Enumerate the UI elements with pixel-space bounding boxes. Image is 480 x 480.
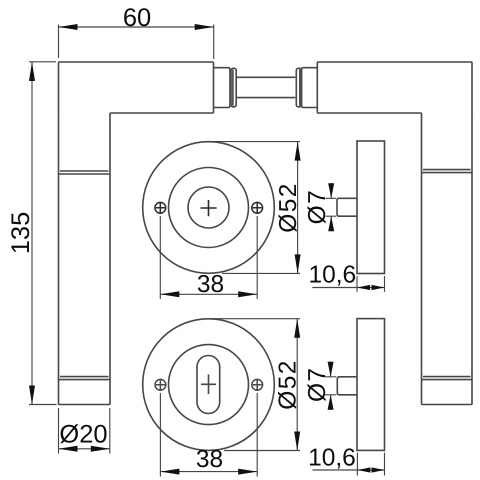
arrow 10,6 upper right (372, 285, 385, 290)
label Ø7 lower (304, 367, 331, 402)
arrow 38 lower left (160, 469, 179, 475)
right handle neck (302, 68, 318, 108)
svg-text:38: 38 (196, 446, 223, 473)
arrow Ø52 lower bottom (294, 432, 300, 451)
upper side view spindle stub (337, 198, 357, 216)
lower rosette outer circle (143, 319, 275, 451)
lower side view spindle stub (337, 377, 357, 395)
arrow 10,6 upper left (357, 285, 370, 290)
upper rosette outer circle (143, 142, 275, 274)
arrow 10,6 lower right (372, 467, 385, 472)
arrow Ø7 lower top (328, 362, 334, 377)
dim 38 lower: extension lines (160, 393, 257, 477)
left lever handle body (plan view) (59, 62, 214, 405)
dim Ø20: extension lines (59, 408, 110, 454)
arrow Ø20 left (59, 446, 78, 452)
left handle neck (214, 68, 231, 108)
svg-text:10,6: 10,6 (308, 445, 356, 472)
left spindle collar (231, 68, 236, 107)
svg-text:135: 135 (7, 212, 35, 255)
dim Ø52 lower: tangent extension lines (211, 319, 300, 451)
arrow 135 bottom (29, 386, 35, 405)
arrow Ø20 right (91, 446, 110, 452)
lower rosette side view plate (357, 319, 385, 451)
dim Ø7 lower: tick extension lines (325, 377, 336, 395)
lower rosette middle circle (169, 345, 249, 425)
arrow 38 upper left (160, 291, 179, 297)
arrow 10,6 lower left (357, 467, 370, 472)
dim Ø7 upper: tick extension lines (326, 198, 337, 216)
lower rosette keyhole slot (197, 356, 220, 414)
svg-text:38: 38 (197, 271, 224, 298)
upper rosette left screw (155, 202, 166, 214)
label Ø52 lower (274, 359, 301, 410)
svg-text:Ø7: Ø7 (304, 189, 331, 224)
dim 60: dimension line (59, 26, 214, 28)
dim 38 lower: dimension line (160, 471, 257, 473)
dim Ø7 upper: dimension line (330, 183, 332, 231)
lower rosette center cross (201, 374, 216, 394)
arrow Ø7 lower bottom (328, 395, 334, 410)
spindle shaft (236, 77, 295, 97)
arrow 38 lower right (238, 469, 257, 475)
left grip end-cap joint line (59, 377, 111, 380)
svg-text:Ø20: Ø20 (59, 421, 107, 449)
upper rosette center cross (201, 200, 217, 216)
upper rosette middle circle (169, 168, 249, 248)
right lever handle body (plan view) (317, 62, 472, 405)
lower rosette left screw (155, 379, 166, 391)
arrow Ø52 upper bottom (295, 254, 301, 273)
svg-text:10,6: 10,6 (309, 262, 357, 289)
label 135 (7, 212, 35, 255)
right spindle collar (296, 68, 301, 107)
arrow 135 top (29, 62, 35, 81)
right grip end-cap joint line (422, 377, 473, 380)
label Ø7 upper (304, 189, 331, 224)
dim Ø20: dimension line (59, 448, 110, 450)
dim 10,6 upper: extension lines (357, 276, 385, 292)
dim 60: extension lines (59, 25, 214, 60)
dim 135: dimension line (31, 62, 33, 405)
dim 10,6 lower: extension lines (357, 453, 384, 476)
dim Ø52 upper: tangent extension lines (211, 142, 300, 274)
label Ø20 (59, 421, 107, 449)
arrow 60 right (195, 24, 214, 30)
upper rosette inner circle (188, 187, 229, 228)
dim 10,6 upper: dimension line (312, 287, 384, 289)
arrow 38 upper right (238, 291, 257, 297)
dim 38 upper: extension lines (160, 216, 257, 299)
upper rosette right screw (252, 202, 263, 214)
svg-text:Ø7: Ø7 (304, 367, 331, 402)
dim 38 upper: dimension line (160, 293, 257, 295)
dim Ø52 lower: dimension line (296, 319, 298, 451)
arrow Ø7 upper bottom (328, 216, 334, 231)
label 38 lower (196, 446, 223, 473)
svg-text:Ø52: Ø52 (275, 182, 302, 233)
label 10,6 lower (308, 445, 356, 472)
arrow Ø52 upper top (295, 142, 301, 161)
right grip upper joint line (422, 170, 473, 173)
label Ø52 upper (275, 182, 302, 233)
dim Ø7 lower: dimension line (330, 362, 332, 411)
svg-text:60: 60 (123, 4, 151, 32)
arrow Ø52 lower top (294, 319, 300, 338)
upper rosette side view plate (357, 141, 385, 274)
dim 135: extension lines (29, 62, 57, 405)
lower rosette right screw (252, 379, 263, 391)
arrow Ø7 upper top (328, 183, 334, 198)
label 60 (123, 4, 151, 32)
left grip upper joint line (59, 171, 111, 174)
arrow 60 left (59, 24, 78, 30)
label 38 upper (197, 271, 224, 298)
dim 10,6 lower: dimension line (313, 469, 385, 471)
dim Ø52 upper: dimension line (297, 142, 299, 274)
svg-text:Ø52: Ø52 (274, 359, 301, 410)
label 10,6 upper (309, 262, 357, 289)
